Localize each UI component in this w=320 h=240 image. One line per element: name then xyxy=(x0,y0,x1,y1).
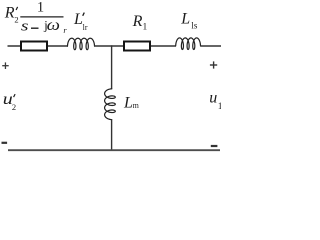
node junction of top rail and magnetizing branch xyxy=(111,45,113,47)
svg-text:L: L xyxy=(73,11,83,28)
svg-text:s: s xyxy=(21,18,29,34)
wire R1 to L_ls xyxy=(151,45,176,47)
label u2' xyxy=(3,90,13,108)
wire bottom rail xyxy=(8,149,220,151)
svg-text:ls: ls xyxy=(191,21,198,31)
svg-text:L: L xyxy=(123,95,133,112)
wire top-left terminal to R2' xyxy=(8,45,22,47)
denominator minus xyxy=(31,27,39,29)
fraction bar xyxy=(20,16,63,18)
wire vertical branch upper xyxy=(111,45,113,89)
svg-text:L: L xyxy=(180,10,190,27)
wire vertical branch lower xyxy=(111,119,113,150)
svg-text:1: 1 xyxy=(143,23,148,33)
resistor R2'.1/(s-jwr) body xyxy=(21,42,47,51)
svg-text:2: 2 xyxy=(14,15,18,25)
wire L'lr to node and R1 xyxy=(94,45,124,47)
minus sign left xyxy=(2,142,8,144)
svg-text:ω: ω xyxy=(47,17,60,34)
resistor R1 body xyxy=(124,42,150,51)
svg-text:1: 1 xyxy=(37,0,44,16)
denominator omega xyxy=(47,17,60,34)
svg-text:u: u xyxy=(209,89,217,106)
wire L_ls to top-right terminal xyxy=(200,45,221,47)
svg-text:1: 1 xyxy=(218,102,221,112)
denominator s xyxy=(21,18,29,34)
inductor L'lr coil xyxy=(68,38,95,50)
inductor L_m coil (vertical) xyxy=(105,89,116,120)
minus sign right xyxy=(211,145,218,147)
svg-text:lr: lr xyxy=(83,23,88,32)
plus sign left xyxy=(2,65,9,67)
plus sign right xyxy=(210,64,217,66)
node junction of bottom rail and magnetizing branch xyxy=(111,149,113,151)
svg-text:m: m xyxy=(133,101,140,110)
svg-text:r: r xyxy=(63,25,67,35)
svg-text:2: 2 xyxy=(12,102,16,112)
wire R2' to L'lr xyxy=(48,45,68,47)
svg-text:R: R xyxy=(132,13,143,30)
svg-text:R: R xyxy=(4,5,15,22)
inductor L_ls coil xyxy=(176,38,201,50)
